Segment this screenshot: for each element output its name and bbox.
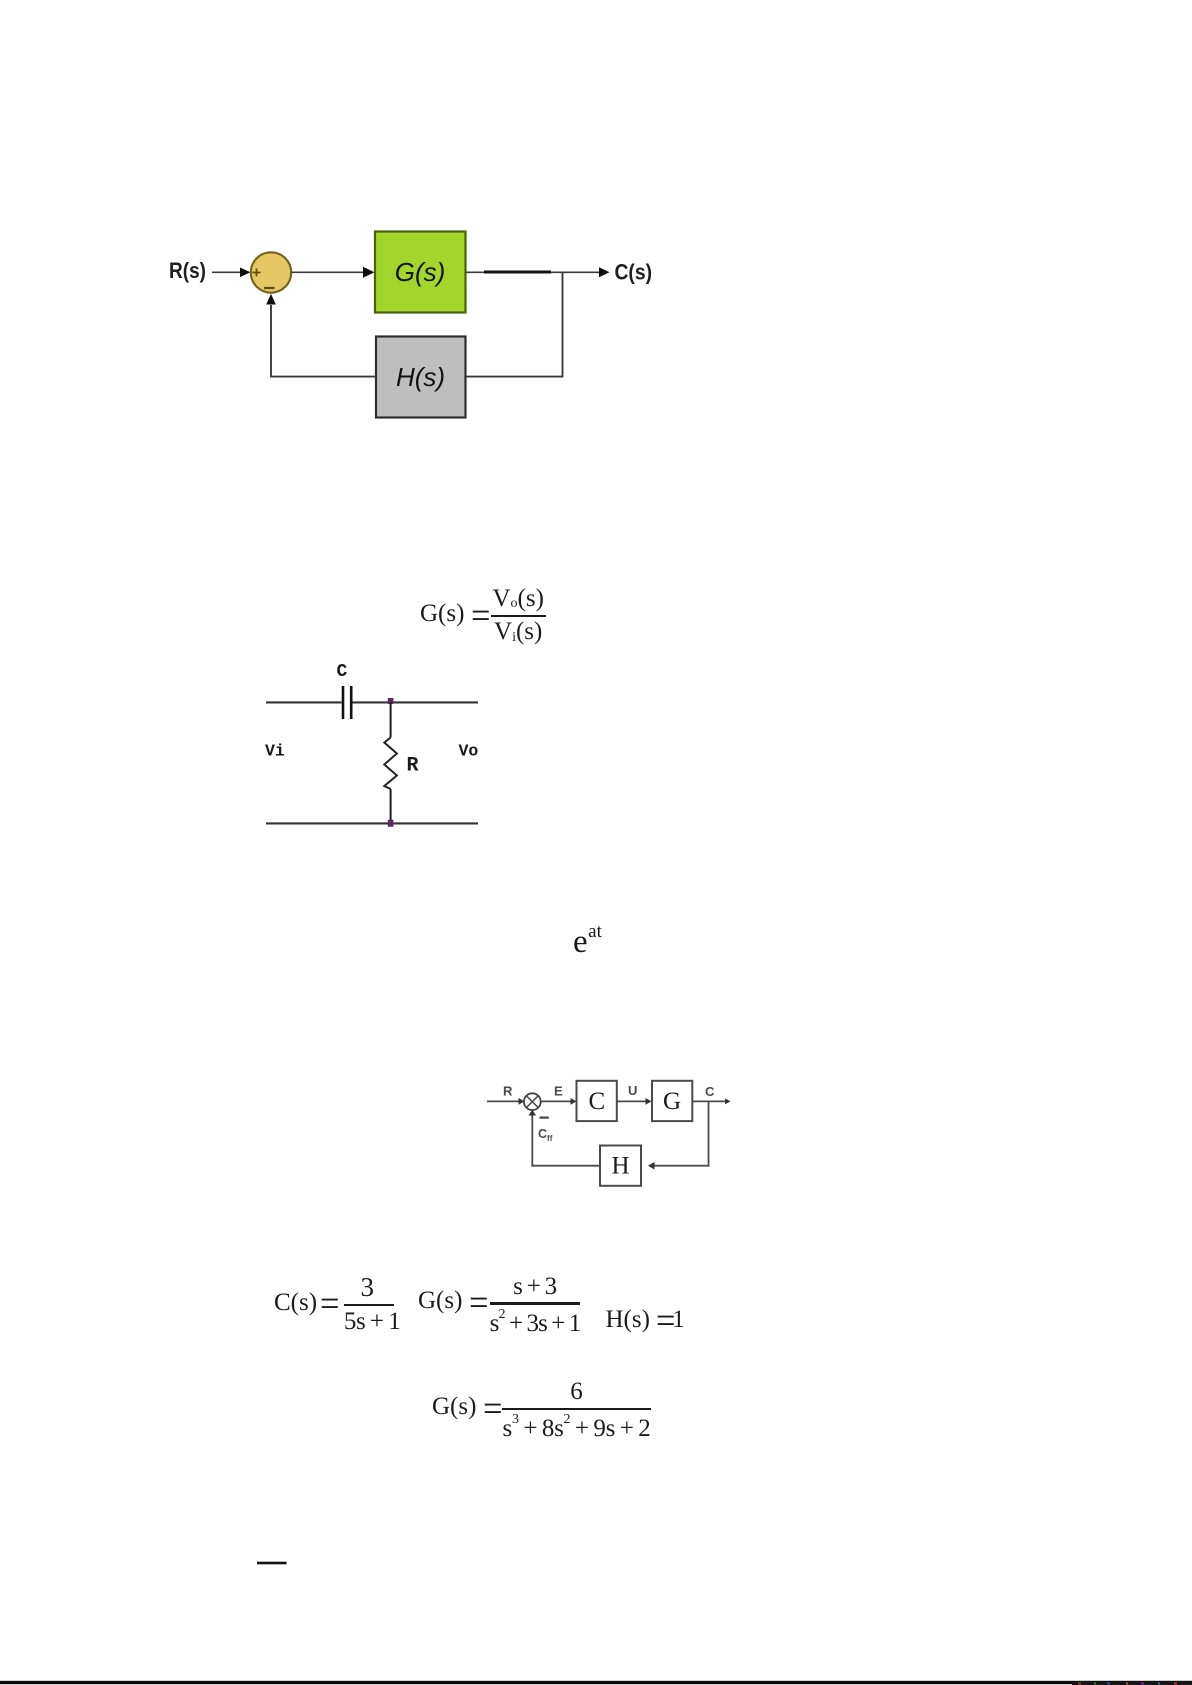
svg-text:H: H	[611, 1153, 629, 1180]
svg-text:R: R	[503, 1084, 513, 1099]
diagram2 wire block C to block G	[617, 1100, 647, 1102]
arrowhead into G(s)	[363, 267, 375, 278]
diagram2 wire input R to summing junction	[487, 1100, 520, 1102]
diagram2 feedback wire rising to summing junction	[531, 1114, 533, 1167]
summing junction S1	[251, 252, 291, 292]
wire R(s) input to summing junction	[212, 271, 240, 273]
svg-text:C: C	[588, 1088, 605, 1115]
arrowhead into summing junction	[240, 268, 251, 278]
diagram2 feedback wire right segment into H	[649, 1165, 709, 1167]
wire G(s) output thick segment	[484, 271, 551, 274]
wire feedback H(s) to below summing junction	[270, 376, 376, 378]
svg-text:R: R	[407, 755, 419, 778]
svg-text:Vi: Vi	[265, 742, 285, 761]
wire feedback rising to summing junction	[270, 305, 272, 378]
equation G(s)=Vo(s)/Vi(s) text part	[420, 600, 485, 628]
wire node A down to resistor R	[390, 702, 392, 738]
wire summing junction to G(s)	[292, 271, 365, 273]
svg-text:E: E	[554, 1084, 563, 1099]
arrowhead up into summing junction	[266, 294, 276, 305]
wire resistor R to bottom rail	[390, 789, 392, 823]
svg-text:C: C	[705, 1084, 715, 1099]
node B junction dot bottom	[388, 820, 394, 827]
equation C(s)=3/(5s+1) fraction	[344, 1275, 394, 1334]
diagram2 block H	[600, 1146, 641, 1186]
block G(s)	[375, 232, 466, 313]
arrowhead at C(s)	[599, 267, 610, 277]
node A junction dot top	[388, 698, 394, 704]
svg-text:R(s): R(s)	[169, 258, 206, 283]
resistor R zigzag	[384, 738, 397, 790]
equation C(s)=3/(5s+1) text part	[274, 1289, 334, 1317]
svg-text:Vo: Vo	[459, 742, 479, 761]
top wire right segment capacitor to Vo	[353, 701, 479, 703]
diagram2 feedback wire left segment	[531, 1165, 600, 1167]
capacitor circuit : top wire left segment Vi to capacitor C	[266, 701, 342, 703]
equation G(s)=6/(s^3+8s^2+9s+2) fraction	[502, 1382, 651, 1441]
diagram2 wire summing junction to block C	[541, 1100, 572, 1102]
svg-text:H(s): H(s)	[396, 362, 445, 392]
diagram2 block C	[577, 1081, 617, 1121]
page bottom rule	[0, 1681, 1192, 1684]
capacitor C right plate	[350, 686, 353, 719]
diagram2 arrowhead into summing junction	[519, 1098, 525, 1105]
equation G(s)=(s+3)/(s^2+3s+1) fraction	[490, 1276, 581, 1336]
diagram2 small output arrowhead	[725, 1098, 731, 1104]
plus sign at summing junction	[253, 269, 261, 277]
minus sign at summing junction	[264, 287, 275, 289]
block H(s)	[376, 337, 466, 418]
diagram2 minus sign	[540, 1116, 549, 1118]
wire feedback from node to H(s)	[466, 376, 563, 378]
equation G(s)=6/(s^3+8s^2+9s+2) text part	[432, 1393, 497, 1421]
bottom-right speckle strip	[1072, 1682, 1192, 1685]
svg-text:C: C	[337, 662, 348, 682]
svg-text:Cff: Cff	[538, 1127, 553, 1143]
diagram2 summing junction circle with cross	[524, 1093, 541, 1110]
svg-text:C(s): C(s)	[615, 260, 653, 285]
diagram2 block G	[652, 1081, 692, 1121]
equation G(s)=(s+3)/(s^2+3s+1) text part	[418, 1287, 483, 1315]
diagram2 output wire from G	[693, 1100, 727, 1102]
node junction above feedback	[562, 272, 564, 377]
diagram2 arrowhead into block C	[571, 1098, 577, 1105]
svg-text:G(s): G(s)	[395, 257, 446, 287]
diagram2 arrowhead into block G	[646, 1098, 652, 1105]
bottom rail wire	[266, 822, 478, 824]
exponential term e^at	[573, 926, 602, 959]
equation G(s)=Vo(s)/Vi(s) fraction	[491, 587, 546, 644]
wire G(s) output thin segment	[466, 271, 486, 273]
svg-text:U: U	[628, 1083, 637, 1098]
diagram2 node drop wire from output to feedback	[708, 1101, 710, 1166]
answer underline mark	[257, 1562, 287, 1565]
capacitor C left plate	[342, 686, 345, 719]
diagram2 arrowhead up into summing junction	[529, 1110, 537, 1116]
diagram2 arrowhead into block H	[648, 1162, 655, 1170]
equation H(s)=1	[606, 1306, 685, 1334]
svg-text:G: G	[663, 1088, 681, 1115]
wire to C(s) output	[551, 271, 600, 273]
